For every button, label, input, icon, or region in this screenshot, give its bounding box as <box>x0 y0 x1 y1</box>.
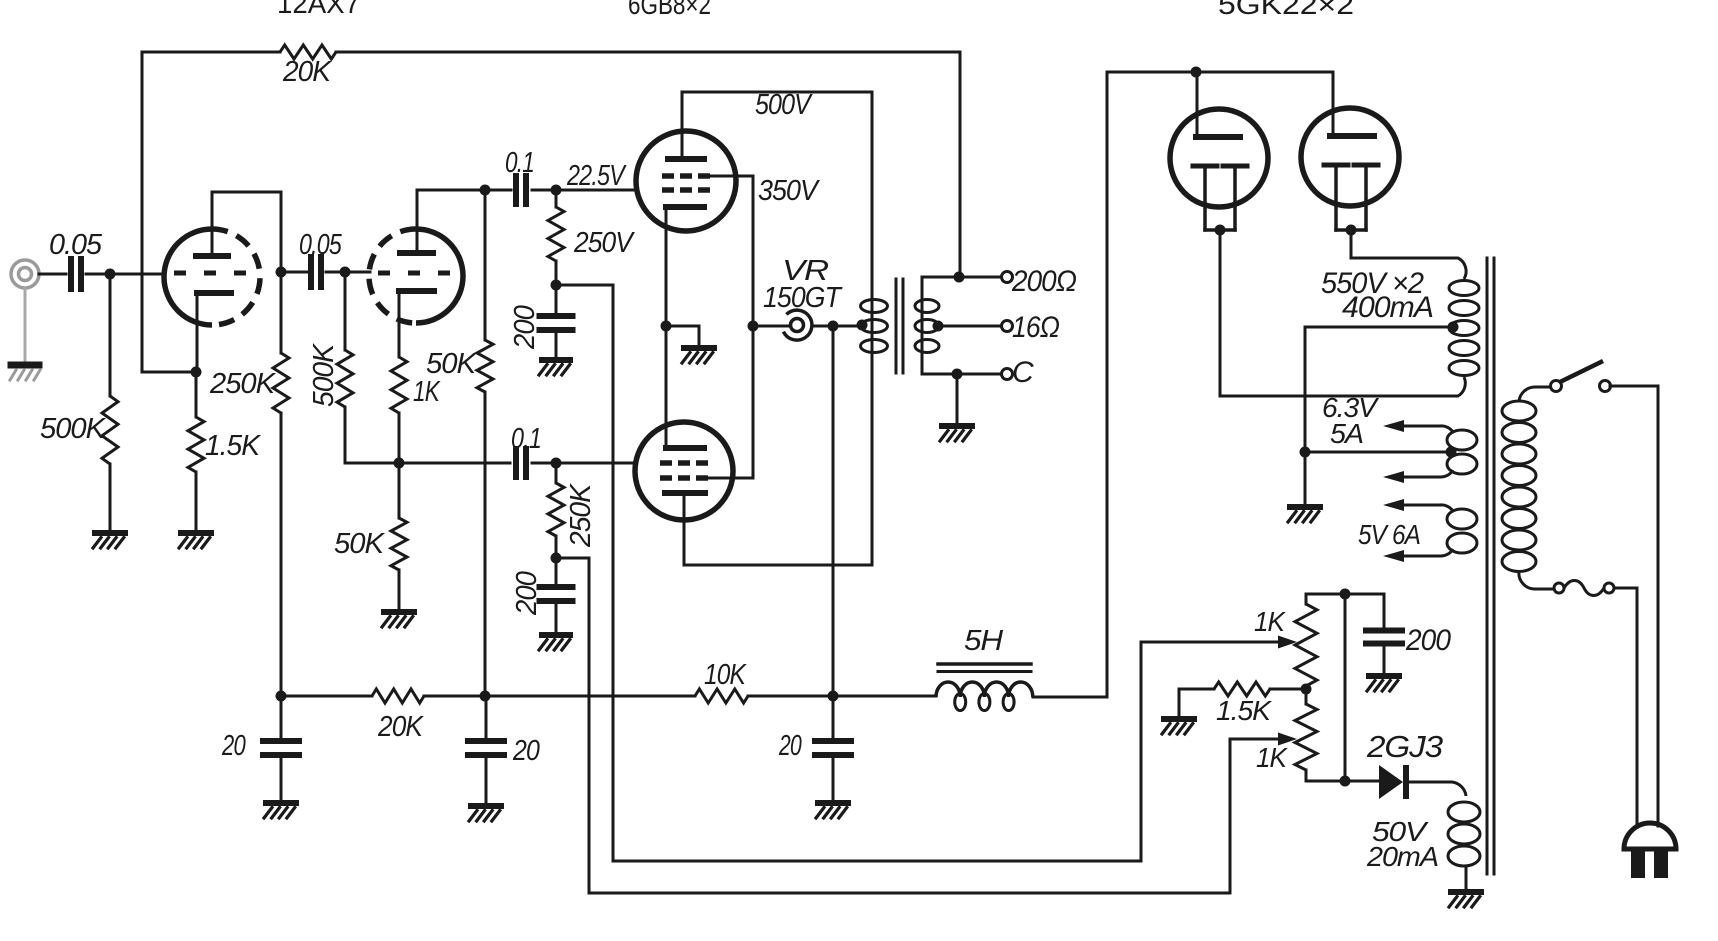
wire 500K to ground <box>109 464 112 531</box>
wire V1a plate over to node <box>212 191 281 194</box>
svg-text:250V: 250V <box>573 227 635 259</box>
svg-text:16Ω: 16Ω <box>1012 311 1059 344</box>
node V1a plate/coupling <box>276 267 287 278</box>
wire 5V top lead <box>1398 504 1440 507</box>
wire 20uF to ground third <box>832 755 835 801</box>
pentode V3 plate bar <box>665 490 705 496</box>
pentode V3 cathode <box>666 445 704 451</box>
resistor 250K plate load V1a <box>273 353 289 413</box>
capacitor 0.05 interstage <box>308 257 314 287</box>
svg-text:5H: 5H <box>964 625 1003 657</box>
node bias divider <box>394 458 405 469</box>
ground input jack <box>11 362 39 369</box>
svg-text:1.5K: 1.5K <box>205 430 262 462</box>
wire long drop x=589 <box>588 558 591 893</box>
node rail choke feed <box>828 691 839 702</box>
pentode V2 cathode <box>666 204 704 210</box>
arrow 6.3V bottom <box>1383 471 1404 483</box>
triode V1a grid dashes <box>174 271 186 276</box>
triode V1b 12AX7 envelope (right solid, left dashed) <box>416 229 463 323</box>
wire jack to input cap <box>39 273 66 276</box>
svg-text:5A: 5A <box>1330 418 1363 449</box>
wire node to 200 lower <box>555 558 558 587</box>
svg-text:6GB8×2: 6GB8×2 <box>628 0 711 20</box>
node 6.3V tap at winding <box>1446 447 1457 458</box>
node rail V1b feed <box>480 691 491 702</box>
wire 20uF to ground first <box>280 755 283 801</box>
ground 50V winding <box>1451 889 1481 895</box>
svg-text:250K: 250K <box>209 368 277 400</box>
node lower RC junction <box>551 553 562 564</box>
PT 50V winding <box>1448 802 1480 822</box>
wire input jack ground lead <box>24 288 27 360</box>
wire V3 screen lead <box>706 477 753 480</box>
wire rail segment 4 <box>748 695 936 698</box>
resistor 50K plate load V1b <box>477 340 493 392</box>
capacitor 200 upper <box>540 313 573 319</box>
triode V1b plate bar <box>400 250 433 256</box>
svg-text:1K: 1K <box>1254 606 1286 637</box>
wire node to 250K lower <box>555 463 558 483</box>
wire 0.1 lower to grid node <box>532 462 636 465</box>
svg-text:350V: 350V <box>758 175 820 207</box>
wire bias line left <box>345 462 510 465</box>
ground under 200 lower <box>542 632 570 638</box>
input jack connector <box>11 260 39 288</box>
svg-text:50K: 50K <box>334 528 386 560</box>
capacitor 0.1 lower coupling <box>513 449 519 477</box>
pentode V3 6GB8 envelope <box>635 422 733 520</box>
wire V2 screen lead <box>706 175 753 178</box>
svg-text:500K: 500K <box>308 342 340 407</box>
wire HV center tap run <box>1305 326 1453 329</box>
switch contact left <box>1551 381 1562 392</box>
inductor 5H choke <box>936 682 1033 697</box>
svg-text:20: 20 <box>512 735 540 767</box>
wire plate node to 0.05 cap <box>281 271 307 274</box>
fuse contact left <box>1554 583 1564 593</box>
svg-text:0.05: 0.05 <box>49 229 103 261</box>
triode V1a 12AX7 envelope (left solid, right dashed) <box>164 229 212 325</box>
svg-text:200Ω: 200Ω <box>1011 265 1076 298</box>
wire grid node to 500K grid leak <box>344 272 347 350</box>
resistor 1.5K cathode V1a <box>188 417 204 472</box>
fuse contact right <box>1604 583 1614 593</box>
svg-text:5GK22×2: 5GK22×2 <box>1218 0 1354 20</box>
rectifier V4 cathode lead <box>1196 72 1199 137</box>
wire V4 plate to HV bottom <box>1220 395 1447 398</box>
svg-text:200: 200 <box>511 571 543 616</box>
resistor 1K cathode V1b <box>391 357 407 413</box>
pentode V2 grid dashes <box>662 187 674 193</box>
terminal 16 ohm <box>1002 321 1013 332</box>
pentode V3 grid dashes <box>660 460 672 466</box>
wire OPT secondary bottom <box>922 373 1002 376</box>
svg-text:2GJ3: 2GJ3 <box>1366 729 1443 764</box>
capacitor 20uF first <box>263 738 299 744</box>
node upper RC junction <box>551 280 562 291</box>
ground PT center taps <box>1290 504 1320 510</box>
capacitor 0.1 upper coupling <box>513 176 519 204</box>
terminal C <box>1002 369 1013 380</box>
wire cathode node to 1.5K <box>195 372 198 417</box>
arrow 6.3V top <box>1383 420 1404 432</box>
PT 5V winding <box>1447 509 1477 529</box>
OPT primary winding loops <box>861 300 888 313</box>
arrow upper hum pot wiper <box>1278 636 1297 649</box>
wire OPT secondary mid tap <box>939 325 1002 328</box>
wire hum network bottom <box>1306 780 1379 783</box>
wire feedback left drop <box>141 52 144 372</box>
PT core laminations <box>1486 258 1489 874</box>
wire long drop x=613 <box>612 285 615 861</box>
wire V5 plate to HV top <box>1351 257 1447 260</box>
capacitor 20uF third <box>815 738 851 744</box>
wire riser x=1141 <box>1140 642 1143 861</box>
node rectifier cathode bus <box>1191 67 1202 78</box>
svg-text:250K: 250K <box>565 482 597 548</box>
ground under 1.5K <box>181 530 211 536</box>
wire 200 lower to ground <box>555 601 558 633</box>
wire 250K bottom to rail <box>280 413 283 696</box>
choke core lines <box>938 662 1031 666</box>
wire 1K to bias node <box>398 413 401 463</box>
node OPT secondary common <box>952 369 963 380</box>
ground 20uF second <box>471 803 501 809</box>
wire screen bus x=753 <box>752 176 755 478</box>
svg-text:500K: 500K <box>40 413 107 445</box>
PT primary top connector <box>1519 387 1551 401</box>
resistor 10K rail <box>695 689 748 703</box>
svg-text:0.1: 0.1 <box>505 147 534 179</box>
ground 200 bias <box>1369 673 1399 679</box>
wire V3 plate run <box>684 564 872 567</box>
svg-text:20mA: 20mA <box>1366 841 1438 872</box>
wire cap node drop <box>1344 594 1347 781</box>
rectifier V5 plates <box>1324 163 1348 168</box>
node input grid <box>105 269 116 280</box>
diode 2GJ3 <box>1379 765 1403 799</box>
node rail V1a feed <box>276 691 287 702</box>
node OPT primary center tap <box>857 320 868 331</box>
wire input cap to grid node <box>86 273 164 276</box>
wire node to 200 upper <box>555 285 558 316</box>
svg-text:1K: 1K <box>1256 742 1288 773</box>
PT HV bottom connector <box>1447 377 1465 396</box>
node upper 0.1 output <box>551 185 562 196</box>
wire riser x=1230 <box>1229 739 1232 893</box>
node feedback tap 200ohm <box>954 272 965 283</box>
wire long bottom run y=893 <box>589 892 1230 895</box>
wire rectifier cathode bus <box>1107 71 1333 74</box>
capacitor 20uF second <box>468 738 504 744</box>
pentode V2 6GB8 envelope <box>636 131 736 231</box>
PT HV winding <box>1449 281 1479 296</box>
PT primary bottom connector <box>1519 571 1554 589</box>
wire 20uF to ground second <box>485 755 488 804</box>
wire top feedback left segment <box>142 51 280 54</box>
wire VR to OPT center tap <box>812 325 862 328</box>
wire 50K load to rail <box>484 392 487 696</box>
wire 0.05 to grid node V1b <box>326 271 370 274</box>
OPT secondary spine <box>921 277 924 374</box>
wire rail node3 to 20uF <box>832 696 835 741</box>
potentiometer 1K lower <box>1295 704 1317 770</box>
pentode V2 plate bar <box>668 156 704 162</box>
wire plate node to 0.1 upper <box>485 189 511 192</box>
ground OPT common <box>942 423 972 429</box>
potentiometer 1K upper <box>1295 604 1317 686</box>
node VR B+ junction <box>828 321 839 332</box>
wire 250V resistor to cap node <box>555 261 558 285</box>
node between pots <box>1301 684 1312 695</box>
wire common tap to ground <box>956 374 959 424</box>
rectifier V5 cathode bar <box>1330 133 1374 139</box>
svg-text:500V: 500V <box>755 89 813 121</box>
node V5 plates join <box>1346 225 1357 236</box>
wire pots junction <box>1305 686 1308 704</box>
wire RC node right jog upper <box>556 284 613 287</box>
wire top feedback right segment <box>336 51 960 54</box>
pentode V3 screen dashes <box>660 475 672 481</box>
resistor 250V grid upper <box>548 207 564 261</box>
wire B+ vertical x=1107 <box>1106 72 1109 697</box>
PT primary winding <box>1502 401 1536 421</box>
wire rail segment 2 <box>424 695 485 698</box>
svg-text:20: 20 <box>778 730 801 762</box>
node PT HV center tap <box>1448 322 1459 333</box>
ground 20uF third <box>818 800 848 806</box>
wire 500K leak to bias line <box>344 407 347 463</box>
node V1b plate <box>480 185 491 196</box>
wire bias node to 50K <box>398 463 401 518</box>
wire CT to ground <box>1304 452 1307 505</box>
svg-text:1K: 1K <box>413 376 441 408</box>
triode V1a cathode <box>197 290 231 296</box>
wire switch to plug drop <box>1610 385 1658 388</box>
wire cathode node to ground jog <box>666 325 699 328</box>
svg-text:150GT: 150GT <box>763 282 843 314</box>
svg-text:200: 200 <box>1405 624 1451 657</box>
wire rail node to 20uF <box>280 696 283 741</box>
arrow 5V bottom <box>1383 550 1404 562</box>
node lower 0.1 output <box>551 458 562 469</box>
triode V1b cathode <box>399 288 434 294</box>
ground 20uF first <box>266 800 296 806</box>
svg-text:1.5K: 1.5K <box>1216 695 1272 726</box>
wire diode to 50V winding <box>1409 782 1466 796</box>
wire V4 plate drop <box>1219 230 1222 396</box>
svg-text:50K: 50K <box>426 348 478 380</box>
PT 6.3V winding <box>1447 430 1477 450</box>
pentode V2 screen dashes <box>662 173 674 179</box>
svg-text:20K: 20K <box>377 711 424 743</box>
wire feedback to cathode <box>142 371 196 374</box>
switch blade <box>1562 362 1601 381</box>
resistor 250K lower grid <box>548 483 564 536</box>
rectifier V5 cathode lead <box>1332 72 1335 136</box>
wire 500V plate run <box>682 91 872 94</box>
svg-text:5V 6A: 5V 6A <box>1358 519 1420 550</box>
wire choke to B+ drop <box>1033 696 1107 699</box>
node hum network top <box>1340 589 1351 600</box>
wire 6.3V bottom lead <box>1398 476 1440 479</box>
wire feedback right drop to 200ohm tap <box>959 52 962 277</box>
rectifier V5 5GK22 envelope <box>1301 108 1399 206</box>
PT HV top connector <box>1447 258 1466 279</box>
resistor 20K feedback <box>280 45 336 59</box>
wire 50V winding to ground <box>1465 868 1468 890</box>
svg-text:12AX7: 12AX7 <box>277 0 360 19</box>
triode V1a plate bar <box>196 253 228 259</box>
wire rail node2 to 20uF <box>485 696 488 741</box>
wire OPT primary top drop <box>871 92 874 280</box>
ground under 50K bias <box>384 609 414 615</box>
wire screen bus to VR <box>753 325 790 328</box>
wire fuse to plug drop <box>1614 587 1637 590</box>
resistor 50K bias to ground <box>391 518 407 570</box>
ground 1.5K bias <box>1164 716 1194 722</box>
ground output cathodes <box>684 345 714 351</box>
wire to lower hum pot wiper <box>1230 738 1280 741</box>
OPT core laminations <box>895 279 898 373</box>
pentode V3 plate lead <box>683 495 686 565</box>
wire OPT primary bottom rise <box>871 372 874 565</box>
wire 1.5K to node <box>1270 688 1306 691</box>
wire pot bottom lead <box>1305 770 1308 781</box>
wire 50K to ground <box>398 570 401 610</box>
wire to upper hum pot wiper <box>1141 641 1280 644</box>
wire V5 plate drop <box>1350 230 1353 258</box>
wire 5V bottom lead <box>1398 555 1440 558</box>
arrow lower hum pot wiper <box>1278 733 1297 746</box>
wire pot top to cap line <box>1305 594 1308 604</box>
node OPT secondary mid <box>933 321 944 332</box>
capacitor 200 lower <box>540 584 573 590</box>
wire V1b plate to coupling node <box>417 189 485 192</box>
wire grid node down to 500K <box>109 274 112 396</box>
wire B+ riser x=833 <box>832 326 835 696</box>
wire OPT secondary top <box>922 276 1002 279</box>
wire to 200uF cap <box>1383 594 1386 629</box>
rectifier V4 plates <box>1193 164 1217 169</box>
svg-text:10K: 10K <box>704 659 747 691</box>
svg-text:20: 20 <box>221 730 245 762</box>
wire 250K top stub <box>280 272 283 353</box>
svg-text:20K: 20K <box>282 56 333 88</box>
wire node to 250V resistor <box>555 190 558 207</box>
triode V1a plate lead <box>211 192 214 253</box>
wire 0.1 upper to grid V2 <box>532 189 637 192</box>
node diode feed <box>1340 776 1351 787</box>
arrow 5V top <box>1383 499 1404 511</box>
svg-text:200: 200 <box>509 305 541 350</box>
wire hum network top <box>1306 593 1384 596</box>
rectifier V4 cathode bar <box>1196 134 1240 140</box>
wire plate node down to 50K <box>484 190 487 340</box>
terminal 200 ohm <box>1002 272 1013 283</box>
svg-text:C: C <box>1012 356 1034 389</box>
svg-text:22.5V: 22.5V <box>566 160 627 192</box>
node heater CT junction <box>1300 447 1311 458</box>
mains plug <box>1624 823 1676 849</box>
ground under 500K input <box>95 530 125 536</box>
switch contact right <box>1600 381 1611 392</box>
wire V1a cathode to node <box>196 340 199 372</box>
VR tube symbol <box>791 319 804 332</box>
capacitor 200 bias <box>1366 628 1402 634</box>
wire 250K lower to cap node <box>555 536 558 558</box>
node V1b grid <box>340 267 351 278</box>
wire HV center tap drop <box>1304 327 1307 452</box>
wire 1.5K left lead <box>1179 688 1214 691</box>
node V4 plates join <box>1215 225 1226 236</box>
wire long bottom run y=861 <box>613 860 1141 863</box>
wire 6.3V top lead <box>1398 425 1440 428</box>
wire 200 upper to ground <box>555 330 558 358</box>
wire 200 bias to ground <box>1383 645 1386 674</box>
OPT secondary winding loops <box>915 300 939 313</box>
wire rail segment 1 <box>281 695 372 698</box>
triode V1b grid dashes <box>378 271 390 276</box>
wire 6.3V center tap <box>1305 451 1449 454</box>
capacitor 0.05 input <box>68 259 74 289</box>
wire rail segment 3 <box>485 695 695 698</box>
rectifier V4 5GK22 envelope <box>1170 109 1268 207</box>
resistor 1.5K bias <box>1214 682 1270 696</box>
pentode V2 plate lead <box>681 92 684 156</box>
OPT primary spine <box>871 280 874 372</box>
resistor 500K input <box>102 396 118 464</box>
wire RC node right jog <box>556 557 589 560</box>
node screen bus VR tap <box>748 321 759 332</box>
resistor 500K grid leak V1b <box>337 350 353 407</box>
node V1a cathode <box>191 367 202 378</box>
svg-text:400mA: 400mA <box>1342 291 1433 324</box>
ground under 200 upper <box>542 357 570 363</box>
resistor 20K rail <box>372 689 424 703</box>
wire 1.5K to ground <box>195 472 198 531</box>
triode V1b plate lead <box>416 190 419 250</box>
node output cathodes <box>661 321 672 332</box>
fuse element <box>1564 581 1604 596</box>
